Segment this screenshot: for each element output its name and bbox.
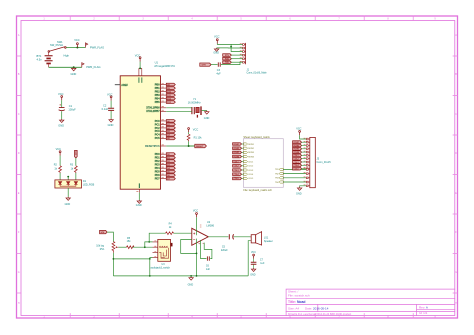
svg-text:C1: C1 [69,104,73,108]
ground at C7 [251,268,255,272]
svg-text:RV1: RV1 [100,248,105,251]
capacitor C2 [102,92,115,127]
svg-text:C: C [455,113,457,116]
svg-text:VCC: VCC [251,252,256,254]
audio jack U3 [151,239,173,269]
svg-text:ROW4: ROW4 [234,155,241,158]
J3 pin numbers [304,138,306,185]
wire [302,145,307,147]
svg-text:SW_PUSH: SW_PUSH [50,43,63,47]
global label D12 [166,97,175,100]
wire TXD to pin6 [231,61,242,63]
wire [302,154,307,156]
svg-text:ROW3: ROW3 [294,149,300,151]
svg-text:VCC: VCC [193,128,199,132]
svg-text:COL4: COL4 [248,174,253,176]
wire U3 bottom to gnd rail [113,258,152,259]
global label D10 [166,90,175,93]
power VCC at J3 [299,131,301,136]
svg-text:D9: D9 [167,88,169,90]
global label RTS [223,54,232,57]
svg-text:High: High [64,54,70,58]
svg-text:Size: A4: Size: A4 [288,307,299,311]
wire [302,148,307,150]
junction [188,145,190,147]
wire [283,173,306,175]
global label D9 [166,87,175,90]
sheet pin COL5 [243,177,253,180]
wire SPK to RV1 [107,232,113,242]
svg-text:ROW2: ROW2 [234,148,240,150]
svg-text:COL5: COL5 [294,168,299,170]
wire R4 to op-amp [174,232,192,234]
svg-text:C2: C2 [103,104,107,108]
U1 AREF left pin [115,84,129,87]
global label COL1 [233,160,242,163]
resistor R2 [54,156,62,174]
svg-text:VCC: VCC [58,92,64,96]
svg-text:D0: D0 [167,154,169,156]
svg-text:COL3: COL3 [294,162,299,164]
wire [242,143,244,145]
global label ROW4 [233,155,242,158]
sheet pin COL2 [243,165,253,168]
junction [76,47,78,49]
wire [242,156,244,158]
svg-text:100uF: 100uF [68,108,76,112]
svg-text:COL5: COL5 [248,178,253,180]
wire wiper to R5 [118,246,126,248]
wire [302,168,307,170]
svg-text:GND: GND [296,193,302,196]
ground at crystal [205,111,209,115]
sheet pin TR3 [275,177,283,180]
svg-text:Sheet: keyboard_matrix: Sheet: keyboard_matrix [243,136,270,139]
junction [73,66,75,68]
global label A2 [166,127,175,130]
wire [242,173,244,175]
wire to R4 [149,233,165,242]
junction [196,275,198,277]
svg-text:A1: A1 [167,123,169,126]
global label COL3 at J3 [293,161,302,164]
power flag PWR_FLAG [86,43,88,48]
global label D3 [166,163,175,166]
svg-text:D7: D7 [167,179,169,181]
global label COL4 at J3 [293,164,302,167]
junction [67,176,69,178]
IC U1 ATmega328P-PU [120,61,175,190]
svg-text:ROW1: ROW1 [234,144,240,146]
wire [242,147,244,149]
svg-text:1uF: 1uF [206,268,211,271]
global label D13 [166,101,175,104]
wire battery minus to gnd [49,66,82,68]
svg-text:COL5: COL5 [234,178,239,180]
svg-text:KiCad E.D.A. eeschema (2014-0: KiCad E.D.A. eeschema (2014-01-24 BZR 40… [288,313,352,316]
global label COL5 at J3 [293,167,302,170]
wire U2 output [208,236,228,238]
power VCC at C7 [253,254,255,259]
junction [196,253,198,255]
wire DTR to C3 [211,64,218,66]
global label A1 [166,123,175,126]
resistor R5 [127,237,135,249]
svg-text:TR3: TR3 [275,178,279,180]
svg-text:TR1: TR1 [275,169,279,171]
svg-text:BT1: BT1 [37,54,42,58]
svg-text:A0: A0 [167,120,169,123]
svg-text:PB5: PB5 [155,101,160,104]
U1 GND bottom pin [136,183,140,200]
global label A3 [166,130,175,133]
capacitor C3 [216,62,221,75]
svg-text:D: D [18,152,20,155]
U3 pin numbers [154,241,156,257]
global label ROW3 at J3 [293,147,302,150]
svg-text:0.1uF: 0.1uF [102,107,109,111]
svg-text:Conn_01x15: Conn_01x15 [317,161,332,164]
svg-text:LED_RGB: LED_RGB [83,183,95,186]
junction [148,241,150,243]
svg-text:ROW4: ROW4 [248,156,254,158]
global label RXD [223,57,232,60]
sheet pin TR4 [275,181,283,184]
svg-text:RESET/PC6: RESET/PC6 [145,144,160,148]
svg-text:PWR_FLAG: PWR_FLAG [90,46,104,50]
junction [113,258,115,260]
svg-text:PWR_FLAG: PWR_FLAG [86,65,100,69]
power VCC at R2 [59,151,61,156]
svg-text:Date: 2016-05-14: Date: 2016-05-14 [305,307,329,311]
svg-text:A5: A5 [167,137,169,140]
wire [302,151,307,153]
global label RESET [195,144,207,148]
svg-text:GND: GND [213,52,219,55]
U1 XTAL pins [146,107,166,114]
svg-text:audiojack3_switch: audiojack3_switch [151,266,171,269]
connector J3 [306,137,331,187]
svg-text:COL1: COL1 [234,161,239,163]
svg-text:D11: D11 [167,95,170,97]
resistor R3 [70,158,77,173]
resistor R1 [187,128,202,146]
junction [144,246,146,248]
wire VCC to J3 pin1 [300,135,307,139]
wire [242,151,244,153]
power VCC above U1 [139,57,141,62]
power VCC at U2 [196,213,198,218]
wire U2 bypass to C6 [201,240,207,259]
ground at rail [190,275,192,278]
svg-text:COL2: COL2 [294,159,299,161]
svg-text:H: H [18,302,20,305]
svg-text:TR4: TR4 [275,182,279,184]
crystal Y1 [166,98,207,117]
svg-text:COL1: COL1 [294,155,299,157]
wire C6 loop [204,243,212,259]
svg-text:G: G [18,271,20,274]
svg-text:AREF: AREF [121,84,128,87]
wire RXD to pin5 [231,58,242,60]
wire J3 last pin to GND [300,186,307,187]
wire [302,161,307,163]
wire to J1 pin3 [231,44,243,51]
connector J1 serial header [243,43,268,75]
global label COL3 [233,169,242,172]
global label ROW4 at J3 [293,151,302,154]
svg-text:RXD: RXD [225,59,230,61]
svg-text:COL3: COL3 [234,170,239,172]
svg-text:PD7: PD7 [155,178,160,181]
wire [302,158,307,160]
sheet pin TR2 [275,173,283,176]
wire C5 to speaker [234,236,251,238]
svg-text:DTR: DTR [202,64,207,66]
svg-text:D6: D6 [167,175,169,177]
LED D1 [55,180,95,188]
svg-text:RESET: RESET [196,146,204,148]
wire R5 to U3 [133,246,153,248]
wire RV1 bottom down [112,253,114,276]
svg-text:D5: D5 [167,172,169,174]
junction [149,258,151,260]
global label D11 [166,94,175,97]
svg-text:GND: GND [136,203,142,207]
global label ROW2 [233,147,242,150]
svg-text:G: G [455,271,457,274]
global label A5 [166,137,175,140]
speaker LS1 [250,232,273,245]
svg-text:GND: GND [250,274,256,277]
port B pins [161,85,167,103]
global label D1 [166,156,175,159]
svg-text:D10: D10 [167,92,170,94]
svg-text:D13: D13 [167,102,170,104]
svg-text:Id: 1/1: Id: 1/1 [419,311,428,315]
wires to LED pins [60,173,76,180]
global label D0 [166,153,175,156]
svg-text:COL2: COL2 [248,166,253,168]
svg-text:ROW4: ROW4 [294,151,301,154]
svg-text:ATmega328P-PU: ATmega328P-PU [154,64,175,68]
wire [242,165,244,167]
svg-text:D12: D12 [167,99,170,101]
wire U2 minus input [181,240,197,254]
svg-text:Title: Noad: Title: Noad [288,300,305,304]
svg-text:H: H [455,302,457,305]
svg-text:SPK: SPK [101,232,106,234]
resistor R4 [166,223,174,235]
global label A4 [166,134,175,137]
svg-text:1uF: 1uF [260,262,265,265]
global label COL4 [233,173,242,176]
ground at J3 [297,187,301,191]
wire RTS to pin4 [231,54,242,56]
power flag PWR_FLAG2 [82,63,84,68]
svg-text:D3: D3 [167,165,169,167]
global label D5 [166,170,175,173]
svg-text:D8: D8 [167,85,169,87]
svg-text:VCC: VCC [214,34,220,38]
svg-text:LM386: LM386 [206,225,214,228]
svg-text:XTAL2/PB7: XTAL2/PB7 [146,110,160,113]
svg-text:GND: GND [65,203,71,206]
svg-text:File: scratch.sch: File: scratch.sch [288,294,310,298]
global label ROW1 at J3 [293,141,302,144]
wire LED to gnd [67,188,69,197]
svg-text:Speaker: Speaker [264,240,273,243]
svg-text:TXD: TXD [225,62,229,64]
wire [242,161,244,163]
junction [230,46,232,48]
wire gnd rail [113,259,248,276]
sheet pin COL4 [243,173,253,176]
global label A0 [166,120,175,123]
svg-text:GND: GND [71,72,77,76]
global label SPK [100,230,108,234]
wire [302,164,307,166]
sheet pin COL1 [243,161,253,164]
wire GND to J1 pin2 [217,47,243,49]
wire [302,141,307,143]
global label ROW3 [233,151,242,154]
svg-text:COL2: COL2 [234,166,239,168]
svg-text:ROW3: ROW3 [248,152,254,154]
svg-text:GND: GND [58,124,64,128]
power VCC [77,43,79,48]
port C pins [161,121,167,138]
svg-text:VCC: VCC [56,148,61,151]
sheet pin ROW1 [243,143,253,146]
global label TXD [223,61,232,64]
port D pins [161,154,167,178]
sheet pin COL3 [243,169,253,172]
power VCC at J1 [216,39,218,44]
switch SW1 [48,40,69,58]
wire U2 gnd pin [196,239,198,276]
global label COL2 at J3 [293,157,302,160]
svg-text:Rev: A: Rev: A [419,305,428,309]
capacitor C5 [221,234,234,252]
wire VCC to J1 pin1 [217,43,242,46]
svg-text:COL1: COL1 [248,161,253,163]
ground below U1 [137,200,141,204]
wire [283,181,306,183]
svg-text:A2: A2 [167,127,169,130]
svg-text:ROW1: ROW1 [248,144,254,146]
global label COL2 [233,165,242,168]
wire RESET net [166,145,194,147]
svg-text:D1: D1 [167,158,169,160]
svg-text:ROW3: ROW3 [234,152,240,154]
svg-text:TR2: TR2 [275,173,279,175]
global label COL5 [233,177,242,180]
svg-text:U1: U1 [155,61,159,65]
svg-text:COL3: COL3 [248,170,253,172]
global label ROW1 [233,143,242,146]
svg-text:VCC: VCC [74,38,80,42]
svg-text:File: keyboard_matrix.sch: File: keyboard_matrix.sch [243,189,272,192]
svg-text:VCC: VCC [193,209,198,212]
wire [283,168,306,170]
svg-text:220uF: 220uF [221,249,228,252]
capacitor C7 [251,258,265,268]
capacitor C1 [58,92,76,128]
svg-text:VCC: VCC [296,128,301,131]
op-amp U2 [192,221,215,246]
svg-text:GND: GND [188,284,194,287]
svg-text:A3: A3 [167,130,169,133]
title block text [288,290,428,316]
sheet pin ROW4 [243,156,253,159]
sheet pin TR1 [275,168,283,171]
junction [149,275,151,277]
wire up branch [145,242,153,247]
svg-text:PC5: PC5 [155,137,160,140]
global label D2 [166,160,175,163]
global label DTR [200,63,211,66]
wire [242,177,244,179]
U1 VCC top pins [138,62,142,83]
svg-text:16.000MHz: 16.000MHz [188,102,202,105]
wire switch to vcc node [66,47,85,49]
svg-text:C: C [18,113,20,116]
ground at J1 [214,48,218,52]
capacitor C6 [206,256,211,270]
svg-text:ROW2: ROW2 [294,145,300,147]
ground below LED [66,197,70,201]
battery BT1 [37,52,53,67]
global label D6 [166,174,175,177]
U1 RESET pin [145,144,166,148]
svg-text:Conn_01x06_Male: Conn_01x06_Male [247,72,268,75]
sheet pin ROW2 [243,147,253,150]
svg-text:R1 10k: R1 10k [194,136,203,139]
potentiometer RV1 [96,242,118,253]
svg-text:ROW2: ROW2 [248,148,254,150]
wire C3 to J1 pin6 [221,62,243,64]
J1 pin numbers [240,44,242,62]
svg-text:D: D [455,152,457,155]
global label ROW2 at J3 [293,144,302,147]
global label D7 [166,177,175,180]
title block [286,289,455,315]
hierarchical sheet keyboard_matrix [243,136,283,192]
global label D4 [166,167,175,170]
svg-text:4.5v: 4.5v [37,58,43,62]
sheet pin ROW3 [243,151,253,154]
global label D8 [166,83,175,86]
svg-text:ROW1: ROW1 [294,142,300,144]
svg-text:GND: GND [204,117,210,120]
wire [283,177,306,179]
global label SPKR vertical [74,150,77,158]
svg-text:10k log: 10k log [96,244,104,247]
wire VCC to U2 [196,217,198,235]
svg-text:GND: GND [108,123,114,127]
svg-text:VCC: VCC [135,54,141,58]
global label COL1 at J3 [293,154,302,157]
wire [242,169,244,171]
svg-text:4uF: 4uF [216,72,221,75]
svg-text:D2: D2 [167,161,169,163]
wire speaker to gnd rail [248,241,250,276]
ground [72,67,76,71]
